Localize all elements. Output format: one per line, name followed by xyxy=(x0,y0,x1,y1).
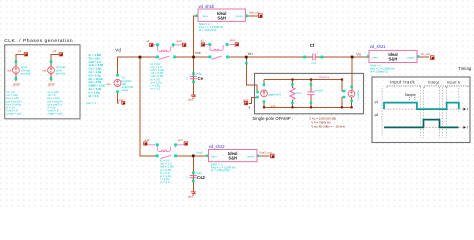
svg-text:Vca2: Vca2 xyxy=(196,150,203,154)
svg-text:c=1: c=1 xyxy=(311,61,316,65)
svg-text:ts = 1/(freq*2)s: ts = 1/(freq*2)s xyxy=(211,168,231,172)
svg-text:Vca: Vca xyxy=(195,51,201,55)
svg-text:vsine: vsine xyxy=(122,88,129,92)
svg-text:m = 1.0: m = 1.0 xyxy=(160,180,170,184)
svg-text:gnd: gnd xyxy=(230,38,235,42)
svg-text:vs1: vs1 xyxy=(106,82,111,86)
svg-text:Ce: Ce xyxy=(198,76,204,81)
svg-text:vout+: vout+ xyxy=(407,55,415,59)
svg-text:p2: p2 xyxy=(375,113,379,117)
svg-text:vmax = vdd: vmax = vdd xyxy=(48,112,63,116)
svg-text:S&H: S&H xyxy=(217,16,226,21)
svg-text:vout+: vout+ xyxy=(247,154,255,158)
svg-text:ro=1: ro=1 xyxy=(296,91,302,95)
svg-text:c=1p: c=1p xyxy=(195,171,202,175)
svg-text:Single-pole OPAMP :: Single-pole OPAMP : xyxy=(252,116,293,121)
svg-text:p1: p1 xyxy=(18,49,22,53)
svg-text:gnd: gnd xyxy=(177,39,182,43)
svg-text:t: t xyxy=(467,107,468,111)
svg-text:Vca2_out: Vca2_out xyxy=(259,150,271,154)
svg-text:gnd: gnd xyxy=(178,138,183,142)
svg-text:egain=1: egain=1 xyxy=(357,91,361,102)
svg-text:CLK. / Phases generation: CLK. / Phases generation xyxy=(4,38,73,44)
svg-text:Vo_out: Vo_out xyxy=(421,52,430,56)
svg-text:vout+: vout+ xyxy=(236,14,244,18)
svg-text:gnd: gnd xyxy=(188,194,193,198)
svg-text:vin+: vin+ xyxy=(211,154,217,158)
svg-text:s2: s2 xyxy=(201,39,204,43)
svg-text:pe=1/fs: pe=1/fs xyxy=(56,71,66,75)
svg-text:Cf: Cf xyxy=(310,43,315,48)
svg-text:t: t xyxy=(467,125,468,129)
svg-text:ggain=1/0: ggain=1/0 xyxy=(268,92,281,96)
svg-text:vin+: vin+ xyxy=(202,14,208,18)
svg-text:pe=1/fs: pe=1/fs xyxy=(21,71,31,75)
svg-text:p2: p2 xyxy=(53,49,57,53)
svg-text:c=1p: c=1p xyxy=(196,72,203,76)
svg-text:vd_sh22: vd_sh22 xyxy=(209,144,226,149)
svg-text:Sample: Sample xyxy=(405,93,416,97)
svg-text:p1: p1 xyxy=(375,100,379,104)
svg-text:Input tr.: Input tr. xyxy=(447,80,462,85)
svg-text:Vd: Vd xyxy=(115,47,121,52)
svg-text:vin+: vin+ xyxy=(372,55,378,59)
svg-text:vd_sh1b: vd_sh1b xyxy=(198,4,215,9)
svg-text:Vopamp: Vopamp xyxy=(319,75,330,79)
svg-text:ts = 1/(freq*2): ts = 1/(freq*2) xyxy=(370,70,388,74)
svg-text:Integr.: Integr. xyxy=(428,80,441,85)
svg-text:gnd: gnd xyxy=(271,104,276,108)
svg-text:S&H: S&H xyxy=(389,57,398,62)
svg-text:gnd!: gnd! xyxy=(13,82,20,86)
svg-text:gnd!: gnd! xyxy=(48,82,55,86)
svg-text:m = 1.0: m = 1.0 xyxy=(151,87,161,91)
svg-text:Input track: Input track xyxy=(390,80,416,85)
svg-text:Cs2: Cs2 xyxy=(197,175,205,180)
svg-text:td = 0.0: td = 0.0 xyxy=(89,94,99,98)
svg-text:*) wo f0(-3dB) = ~ 10mHz: *) wo f0(-3dB) = ~ 10mHz xyxy=(311,125,346,129)
svg-text:Vck_out: Vck_out xyxy=(249,11,260,15)
svg-text:Vo: Vo xyxy=(356,51,361,56)
svg-text:vck: vck xyxy=(7,68,12,72)
svg-text:pwr = 1: pwr = 1 xyxy=(87,101,97,105)
svg-text:S&H: S&H xyxy=(228,156,237,161)
svg-text:ts = 1/(freq*2): ts = 1/(freq*2) xyxy=(199,28,217,32)
svg-text:vck: vck xyxy=(42,68,47,72)
svg-text:s1: s1 xyxy=(146,39,149,43)
svg-text:vd_sh21: vd_sh21 xyxy=(370,44,387,49)
svg-text:Timing: Timing xyxy=(458,66,472,71)
svg-text:gnd: gnd xyxy=(188,98,193,102)
svg-text:c=10.0: c=10.0 xyxy=(315,89,324,93)
svg-text:vmax = vdd: vmax = vdd xyxy=(7,112,22,116)
svg-text:+: + xyxy=(248,105,251,110)
svg-text:s1b: s1b xyxy=(145,138,150,142)
svg-text:Vu: Vu xyxy=(248,51,253,56)
